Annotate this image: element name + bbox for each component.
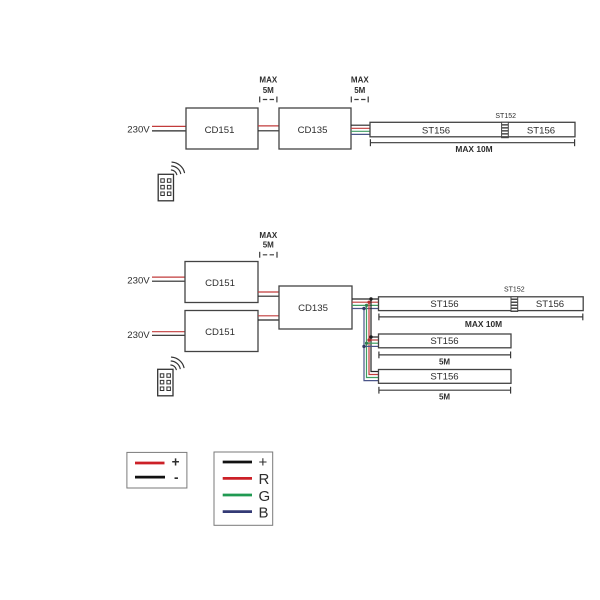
wire black (CD151 to CD135) xyxy=(258,130,279,132)
connector ST152 (top strip) xyxy=(502,122,509,137)
wire blue branch into strip2 xyxy=(364,345,379,347)
dimension 5M (middle strip3) xyxy=(379,387,511,402)
remote control (middle system) xyxy=(158,369,173,396)
svg-text:+: + xyxy=(259,454,268,471)
svg-text:ST156: ST156 xyxy=(527,125,555,136)
legend box RGB xyxy=(214,452,273,525)
svg-text:5M: 5M xyxy=(439,357,450,366)
wire mains N black (230V to CD151) xyxy=(152,130,186,132)
wire mains N black (230V to CD151 upper) xyxy=(152,280,185,282)
controller CD135 (middle system) xyxy=(279,286,352,329)
legend box plus/minus xyxy=(127,452,187,488)
receiver CD151 (middle system, lower) xyxy=(185,311,258,352)
wire red vertical bus to strips 2 and 3 xyxy=(369,302,379,374)
remote RF signal arcs (middle system) xyxy=(171,357,184,370)
wire blue vertical bus to strips 2 and 3 xyxy=(364,309,379,381)
wire black branch into strip2 xyxy=(371,336,379,338)
svg-text:ST156: ST156 xyxy=(422,125,450,136)
wire blue B (CD135 to strip, top) xyxy=(351,133,370,135)
connector ST152 (middle strip1) xyxy=(511,297,518,312)
wire red R (CD135 to strip, top) xyxy=(351,127,370,129)
legend wire green G xyxy=(223,494,252,497)
legend wire black minus xyxy=(135,476,165,479)
junction dot black (bus tap at strip1 level) xyxy=(369,297,372,300)
remote RF signal arcs (top system) xyxy=(171,162,184,175)
svg-text:5M: 5M xyxy=(439,393,450,402)
svg-text:ST156: ST156 xyxy=(536,299,564,310)
receiver CD151 (middle system, upper) xyxy=(185,262,258,303)
svg-text:G: G xyxy=(259,488,271,505)
svg-text:MAX 10M: MAX 10M xyxy=(465,319,502,329)
wire red (CD151 lower to CD135) xyxy=(258,315,279,317)
legend wire red R xyxy=(223,477,252,480)
svg-text:230V: 230V xyxy=(127,275,150,286)
junction dot green (bus tap at strip1 level) xyxy=(365,304,368,307)
dimension 5M (middle strip2) xyxy=(379,352,511,367)
wire black (CD151 lower to CD135) xyxy=(258,319,279,321)
svg-text:ST156: ST156 xyxy=(430,299,458,310)
svg-text:230V: 230V xyxy=(127,330,150,341)
svg-text:CD135: CD135 xyxy=(298,303,328,314)
dimension MAX 5M (between CD151 and CD135, top) xyxy=(259,76,277,103)
junction dot green (branch at strip2) xyxy=(365,342,368,345)
svg-text:5M: 5M xyxy=(263,240,274,249)
svg-text:ST156: ST156 xyxy=(430,336,458,347)
wire red (CD151 upper to CD135) xyxy=(258,291,279,293)
wire red (CD151 to CD135) xyxy=(258,125,279,127)
junction dot red (bus tap at strip1 level) xyxy=(367,301,370,304)
wire blue B (CD135 to strip1, middle) xyxy=(352,308,379,310)
svg-text:MAX: MAX xyxy=(259,76,277,85)
junction dot black (branch at strip2) xyxy=(369,335,372,338)
wire red R (CD135 to strip1, middle) xyxy=(352,301,379,303)
svg-text:ST156: ST156 xyxy=(430,372,458,383)
wire green vertical bus to strips 2 and 3 xyxy=(367,305,379,377)
wire mains L red (230V to CD151 lower) xyxy=(152,331,185,333)
controller CD135 (top system) xyxy=(279,108,351,149)
wire green branch into strip2 xyxy=(367,342,379,344)
svg-text:5M: 5M xyxy=(354,86,365,95)
svg-text:5M: 5M xyxy=(263,86,274,95)
svg-text:MAX: MAX xyxy=(351,76,369,85)
dimension MAX 5M (between CD151s and CD135, middle) xyxy=(259,231,277,258)
svg-text:CD151: CD151 xyxy=(205,327,235,338)
wire mains L red (230V to CD151) xyxy=(152,125,186,127)
dimension MAX 5M (between CD135 and strip, top) xyxy=(351,76,369,103)
svg-text:MAX: MAX xyxy=(259,231,277,240)
svg-text:CD135: CD135 xyxy=(298,125,328,136)
LED strip ST156 (middle strip3) xyxy=(379,370,512,384)
junction dot blue (bus tap at strip1 level) xyxy=(362,307,365,310)
legend wire blue B xyxy=(223,510,252,513)
LED strip ST156 (top, two segments) xyxy=(370,122,575,137)
wire black + (CD135 to strip1, middle) xyxy=(352,298,379,300)
legend wire red plus xyxy=(135,462,165,465)
svg-text:+: + xyxy=(172,454,180,469)
svg-text:-: - xyxy=(174,470,179,485)
wire mains N black (230V to CD151 lower) xyxy=(152,334,185,336)
legend wire black plus xyxy=(223,461,252,464)
svg-text:ST152: ST152 xyxy=(504,286,525,293)
LED strip ST156 (middle strip1, two segments) xyxy=(379,297,584,311)
svg-text:MAX 10M: MAX 10M xyxy=(455,144,492,154)
wire green G (CD135 to strip, top) xyxy=(351,130,370,132)
dimension MAX 10M (middle strip1) xyxy=(379,314,583,329)
svg-text:230V: 230V xyxy=(127,125,150,136)
wire red branch into strip2 xyxy=(369,339,379,341)
junction dot blue (branch at strip2) xyxy=(362,345,365,348)
wire black + (CD135 to strip, top) xyxy=(351,124,370,126)
svg-text:ST152: ST152 xyxy=(495,113,516,120)
remote control (top system) xyxy=(158,174,173,201)
wire black vertical bus to strips 2 and 3 xyxy=(371,299,379,372)
wire black (CD151 upper to CD135) xyxy=(258,295,279,297)
svg-text:CD151: CD151 xyxy=(205,278,235,289)
wire green G (CD135 to strip1, middle) xyxy=(352,304,379,306)
svg-text:B: B xyxy=(259,504,269,521)
receiver CD151 (top system) xyxy=(186,108,258,149)
wire mains L red (230V to CD151 upper) xyxy=(152,276,185,278)
svg-text:R: R xyxy=(259,471,270,488)
dimension MAX 10M (top strip) xyxy=(370,139,574,154)
svg-text:CD151: CD151 xyxy=(205,125,235,136)
LED strip ST156 (middle strip2) xyxy=(379,334,512,348)
junction dot red (branch at strip2) xyxy=(367,338,370,341)
